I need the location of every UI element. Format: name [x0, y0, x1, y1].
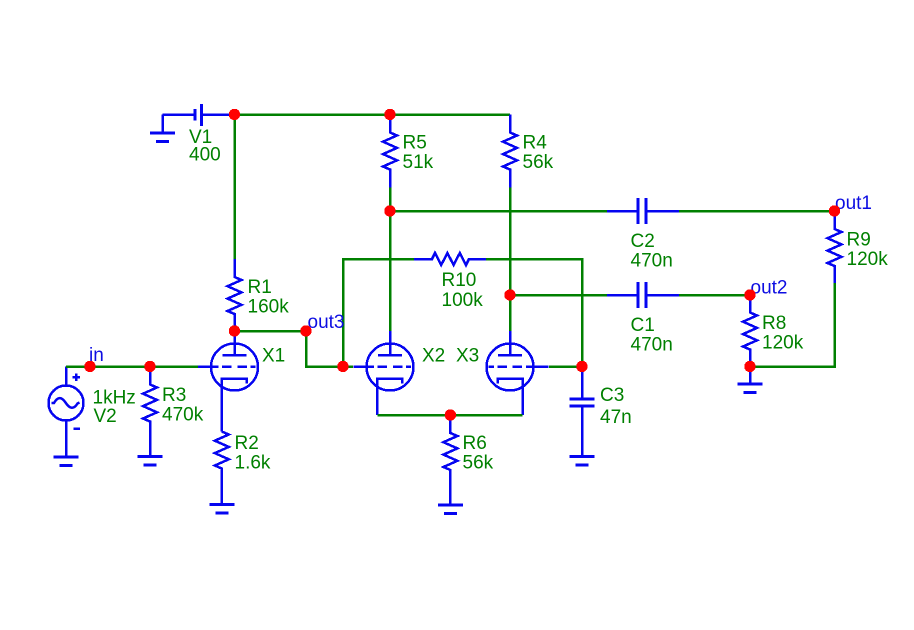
- svg-text:1.6k: 1.6k: [235, 453, 271, 474]
- label V2 1kHz: [93, 388, 136, 428]
- svg-text:51k: 51k: [403, 152, 434, 173]
- resistor R2: [215, 432, 229, 505]
- ground at R6: [438, 505, 463, 514]
- triode X2: [354, 331, 414, 415]
- resistor R4: [503, 115, 517, 188]
- label R1 160k: [248, 277, 290, 318]
- svg-text:R5: R5: [403, 133, 427, 154]
- junction node out3: [300, 325, 311, 336]
- triode X1: [198, 331, 258, 432]
- wire C2 row left: [390, 210, 607, 213]
- ground at V1: [150, 115, 175, 142]
- junction R5 bottom node: [384, 205, 395, 216]
- svg-text:V2: V2: [94, 406, 117, 427]
- label R3 470k: [162, 385, 204, 426]
- wire cathode bus: [377, 414, 522, 417]
- wire C1 to out2: [679, 294, 750, 297]
- label C2 470n: [631, 231, 673, 272]
- wire R4 bottom to node out2 drive: [509, 188, 512, 296]
- junction cathode bus R6: [445, 409, 456, 420]
- svg-text:120k: 120k: [847, 249, 889, 270]
- junction R8 bottom: [744, 361, 755, 372]
- resistor R9: [828, 211, 842, 283]
- junction R3 top: [144, 361, 155, 372]
- wire R1 bottom to out3: [235, 330, 307, 333]
- capacitor C1: [607, 282, 679, 308]
- label R9 120k: [847, 230, 889, 271]
- ground at R3: [138, 457, 163, 466]
- wire X2 plate column: [389, 211, 392, 331]
- wire top rail B+: [235, 113, 511, 116]
- resistor R8: [743, 295, 757, 367]
- wire R9 bottom to R8 ground node: [750, 283, 835, 367]
- svg-text:160k: 160k: [248, 297, 290, 318]
- ground at R2: [209, 505, 234, 514]
- svg-text:56k: 56k: [523, 152, 554, 173]
- capacitor C3: [570, 367, 595, 457]
- junction battery rail: [229, 109, 240, 120]
- junction node out1: [829, 205, 840, 216]
- label C1 470n: [631, 315, 673, 356]
- label R8 120k: [762, 313, 804, 354]
- svg-text:R4: R4: [523, 133, 548, 154]
- svg-text:470n: 470n: [631, 251, 673, 272]
- svg-text:out3: out3: [308, 312, 345, 333]
- wire C1 row left: [510, 294, 607, 297]
- svg-text:470n: 470n: [631, 335, 673, 356]
- wire X2 grid stub: [343, 365, 353, 368]
- svg-text:R2: R2: [235, 433, 259, 454]
- label V1 400: [189, 127, 221, 166]
- junction X3 grid: [576, 361, 587, 372]
- label R5 51k: [403, 133, 434, 174]
- ground at R8: [738, 367, 763, 393]
- wire C2 to out1: [679, 210, 835, 213]
- resistor R1: [228, 259, 242, 331]
- label R2 1.6k: [235, 433, 271, 474]
- wire X3 grid stub: [549, 365, 582, 368]
- svg-text:R8: R8: [762, 313, 786, 334]
- source V2: [49, 367, 84, 458]
- wire in row to X1 grid: [66, 365, 198, 368]
- ground at C3: [570, 457, 595, 466]
- resistor R6: [443, 415, 457, 505]
- svg-text:C2: C2: [631, 231, 655, 252]
- label R6 56k: [463, 433, 494, 474]
- junction R4 bottom node: [504, 289, 515, 300]
- junction node in: [84, 361, 95, 372]
- wire out3 down and right to X2 grid node: [306, 331, 343, 367]
- svg-text:C1: C1: [631, 315, 655, 336]
- svg-text:100k: 100k: [442, 290, 484, 311]
- resistor R10: [414, 253, 486, 265]
- svg-text:X3: X3: [456, 346, 479, 367]
- wire R5 bottom: [389, 188, 392, 212]
- wire R10 left with corner down to X2 grid: [343, 259, 414, 367]
- svg-text:R6: R6: [463, 433, 487, 454]
- svg-text:R3: R3: [162, 385, 186, 406]
- svg-text:out2: out2: [751, 278, 788, 299]
- ground at V2: [54, 457, 79, 466]
- svg-text:out1: out1: [835, 193, 872, 214]
- svg-text:56k: 56k: [463, 453, 494, 474]
- svg-text:470k: 470k: [162, 405, 204, 426]
- svg-text:120k: 120k: [762, 333, 804, 354]
- label R4 56k: [523, 133, 554, 174]
- junction node out2: [744, 289, 755, 300]
- junction R5 top: [384, 109, 395, 120]
- svg-text:R10: R10: [442, 270, 477, 291]
- wire R10 right with corner down to X3 grid: [486, 259, 582, 367]
- wire X3 plate column: [509, 295, 512, 331]
- svg-text:R1: R1: [248, 277, 272, 298]
- wire V1 to R1: [233, 115, 236, 260]
- label R10 100k: [442, 270, 484, 311]
- capacitor C2: [607, 198, 679, 224]
- svg-text:X1: X1: [262, 346, 285, 367]
- junction X2 grid: [337, 361, 348, 372]
- resistor R3: [143, 367, 157, 457]
- svg-text:X2: X2: [422, 346, 445, 367]
- svg-text:R9: R9: [847, 230, 871, 251]
- resistor R5: [383, 115, 397, 188]
- label C3 47n: [600, 385, 632, 428]
- junction node out3 at R1: [229, 325, 240, 336]
- battery V1: [163, 104, 235, 126]
- triode X3: [487, 331, 549, 415]
- svg-text:400: 400: [189, 145, 221, 166]
- svg-text:C3: C3: [600, 385, 624, 406]
- svg-text:47n: 47n: [600, 407, 632, 428]
